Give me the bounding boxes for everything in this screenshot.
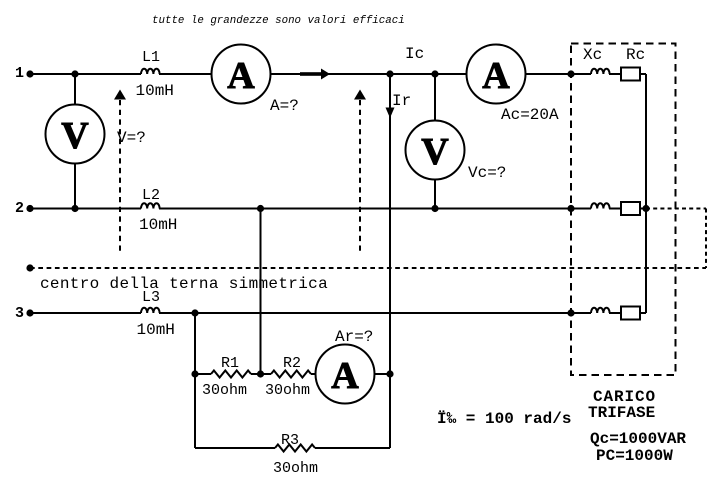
svg-text:V=?: V=? <box>117 129 146 147</box>
svg-text:Ar=?: Ar=? <box>335 328 373 346</box>
load branch 1 wire a <box>571 73 591 75</box>
wire R row segment d <box>375 373 391 375</box>
svg-text:centro della terna simmetrica: centro della terna simmetrica <box>40 275 328 293</box>
wire R network left vertical <box>194 313 196 448</box>
svg-text:PC=1000W: PC=1000W <box>596 447 673 465</box>
svg-text:A: A <box>227 55 255 97</box>
voltmeter V2 lead top <box>434 74 436 121</box>
junction dot line1 x75 <box>71 70 78 77</box>
voltmeter V2 <box>406 121 465 180</box>
svg-text:A: A <box>482 55 510 97</box>
svg-text:V: V <box>61 115 89 157</box>
svg-text:A=?: A=? <box>270 97 299 115</box>
load branch 1 wire b <box>609 73 621 75</box>
arrowhead Ir <box>386 108 395 119</box>
wire Ir vertical <box>389 74 391 448</box>
wire line 1 segment b <box>159 73 212 75</box>
load dashed box <box>571 44 676 376</box>
svg-text:R1: R1 <box>221 355 239 372</box>
svg-text:Qc=1000VAR: Qc=1000VAR <box>590 430 686 448</box>
svg-text:A: A <box>331 355 359 397</box>
centro dashed line <box>30 267 706 269</box>
junction dot node1 terminal <box>26 70 33 77</box>
junction dot node2 terminal <box>26 205 33 212</box>
svg-text:L1: L1 <box>142 49 160 66</box>
junction dot line2 x260 <box>257 205 264 212</box>
inductor Xc branch 1 <box>591 69 610 74</box>
junction dot line1 x435 <box>431 70 438 77</box>
wire R3 row segment b <box>315 447 390 449</box>
svg-text:V: V <box>421 131 449 173</box>
ammeter A3 <box>316 345 375 404</box>
junction dot line1 x390 <box>386 70 393 77</box>
load branch 3 wire c <box>640 312 646 314</box>
junction dot line2 x75 <box>71 205 78 212</box>
inductor L2 <box>141 203 160 208</box>
wire R row segment b <box>251 373 271 375</box>
svg-text:Ï‰ = 100 rad/s: Ï‰ = 100 rad/s <box>437 409 571 428</box>
junction dot line3 x571 <box>567 309 574 316</box>
inductor L3 <box>141 308 160 313</box>
wire line 2 segment a <box>30 208 141 210</box>
resistor R1 <box>211 371 251 378</box>
wire R row segment a <box>195 373 211 375</box>
load branch 2 wire c <box>640 208 646 210</box>
svg-text:10mH: 10mH <box>136 82 174 100</box>
current arrow Ic tail <box>300 72 322 76</box>
svg-text:30ohm: 30ohm <box>202 382 247 399</box>
resistor R3 <box>275 445 315 452</box>
current arrow Ic head <box>321 69 330 80</box>
voltmeter V1 <box>46 105 105 164</box>
svg-text:Ic: Ic <box>405 45 424 63</box>
svg-text:30ohm: 30ohm <box>273 460 318 477</box>
arrowhead V2 measure <box>354 90 366 100</box>
voltmeter V1 lead bottom <box>74 164 76 209</box>
load branch 3 wire a <box>571 312 591 314</box>
resistor Rc branch 1 <box>621 68 640 81</box>
svg-text:tutte le grandezze sono valori: tutte le grandezze sono valori efficaci <box>152 15 405 27</box>
svg-text:Ir: Ir <box>392 92 411 110</box>
wire R row segment c <box>311 373 316 375</box>
dashed arrow V measure <box>119 100 121 252</box>
svg-text:30ohm: 30ohm <box>265 382 310 399</box>
load branch 2 wire a <box>571 208 591 210</box>
svg-text:TRIFASE: TRIFASE <box>588 404 655 422</box>
wire R3 row segment a <box>195 447 275 449</box>
ammeter A2 <box>467 45 526 104</box>
junction dot node3 terminal <box>26 309 33 316</box>
load branch 3 wire b <box>609 312 621 314</box>
svg-text:10mH: 10mH <box>139 216 177 234</box>
svg-text:Ac=20A: Ac=20A <box>501 106 559 124</box>
inductor Xc branch 2 <box>591 203 610 208</box>
ammeter A1 <box>212 45 271 104</box>
wire line 3 segment b <box>159 312 571 314</box>
voltmeter V1 lead top <box>74 74 76 105</box>
svg-text:2: 2 <box>15 200 24 217</box>
svg-text:L2: L2 <box>142 187 160 204</box>
load branch 2 wire b <box>609 208 621 210</box>
neutral dashed vertical <box>705 209 707 269</box>
svg-text:Vc=?: Vc=? <box>468 164 506 182</box>
svg-text:R2: R2 <box>283 355 301 372</box>
junction dot centro terminal <box>26 264 33 271</box>
inductor Xc branch 3 <box>591 308 610 313</box>
dashed arrow V2 measure <box>359 100 361 254</box>
svg-text:R3: R3 <box>281 432 299 449</box>
wire line 2 segment b <box>159 208 571 210</box>
junction dot line3 x195 <box>191 309 198 316</box>
junction dot line1 x571 <box>567 70 574 77</box>
svg-text:3: 3 <box>15 305 24 322</box>
wire line 1 segment a <box>30 73 141 75</box>
junction dot Rrow x195 <box>191 370 198 377</box>
svg-text:Rc: Rc <box>626 46 645 64</box>
voltmeter V2 lead bottom <box>434 180 436 209</box>
wire line 3 segment a <box>30 312 141 314</box>
resistor Rc branch 2 <box>621 202 640 215</box>
wire line2 to R1R2 vertical <box>260 209 262 375</box>
arrowhead V measure <box>114 90 126 100</box>
svg-text:Xc: Xc <box>583 46 602 64</box>
svg-text:10mH: 10mH <box>137 321 175 339</box>
svg-text:1: 1 <box>15 65 24 82</box>
junction dot Rrow x390 <box>386 370 393 377</box>
wire line 1 segment c <box>271 73 467 75</box>
neutral dashed horizontal <box>646 208 706 210</box>
resistor R2 <box>271 371 311 378</box>
junction dot line2 x571 <box>567 205 574 212</box>
wire line 1 segment d <box>526 73 572 75</box>
junction dot Rrow x260 <box>257 370 264 377</box>
wire load neutral vertical <box>645 74 647 313</box>
load branch 1 wire c <box>640 73 646 75</box>
resistor Rc branch 3 <box>621 307 640 320</box>
junction dot line2 x646 <box>642 205 649 212</box>
inductor L1 <box>141 69 160 74</box>
junction dot line2 x435 <box>431 205 438 212</box>
